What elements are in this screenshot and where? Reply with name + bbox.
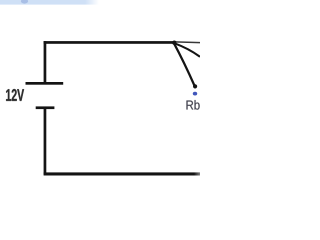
battery B1 negative plate — [36, 106, 55, 109]
wire: left vertical (bottom) — [44, 108, 47, 175]
wire: bottom horizontal — [44, 172, 200, 175]
wire: top horizontal — [44, 41, 176, 44]
label Rb — [186, 100, 199, 110]
blue node dot — [193, 92, 197, 96]
selection highlight strip (top, cropped) — [0, 0, 99, 5]
bottom wire right-end fade — [194, 172, 200, 176]
annotation line B (steep, to Rb) — [174, 43, 195, 87]
junction node at top-right — [172, 41, 176, 45]
wire: thin continuation right of junction — [175, 41, 201, 44]
arrow tip blob of line B — [193, 84, 197, 88]
wire: left vertical (top) — [44, 41, 47, 83]
cursor blob in strip — [21, 0, 28, 4]
label 12V — [6, 89, 24, 101]
annotation line A (shallow) — [174, 43, 200, 57]
battery B1 positive plate — [26, 82, 64, 85]
